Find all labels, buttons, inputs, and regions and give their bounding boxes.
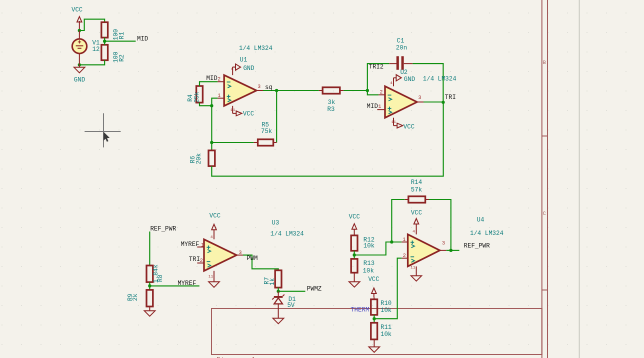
node sq junction [275, 89, 278, 92]
power GND (U1 top) [231, 64, 255, 75]
ground (R11) [369, 339, 380, 352]
hierarchical sheet box [212, 309, 542, 355]
wire R7 bottom [277, 288, 279, 292]
wire VCC to R1 [79, 19, 104, 30]
svg-text:VCC: VCC [209, 212, 220, 219]
resistor R4 [187, 86, 203, 103]
op-amp U2 [377, 86, 423, 118]
wire divider to U4 pin1 [354, 242, 401, 255]
wire R14 feedback left [392, 200, 405, 243]
svg-text:R1: R1 [119, 31, 126, 39]
svg-text:R2: R2 [119, 54, 126, 62]
svg-text:11: 11 [230, 109, 235, 113]
resistor R9 [127, 290, 153, 307]
svg-text:GND: GND [243, 65, 254, 72]
wire U2 output [424, 101, 444, 103]
power VCC (U1 bottom) [230, 106, 254, 118]
svg-text:U3: U3 [272, 220, 280, 227]
ground (U3 bottom) [208, 271, 219, 287]
power VCC (U2 bottom) [391, 118, 415, 131]
svg-text:3: 3 [239, 250, 242, 256]
node VCC junction [78, 29, 81, 32]
wire U4 output [446, 249, 459, 251]
svg-text:VCC: VCC [72, 7, 83, 14]
wire U4 pin2 down to THERM divider [374, 258, 401, 319]
resistor R13 [351, 259, 375, 275]
svg-text:TRI2: TRI2 [369, 63, 384, 70]
wire MID label stub [105, 40, 136, 42]
wire feedback down [276, 91, 278, 143]
capacitor C1 [389, 38, 412, 70]
svg-text:R11: R11 [381, 324, 392, 331]
node PWMZ junction [277, 290, 280, 293]
svg-text:VCC: VCC [243, 111, 254, 118]
resistor R10 [371, 297, 392, 315]
wire U1 pin1 [212, 98, 218, 106]
svg-text:B: B [543, 60, 546, 66]
mouse pointer [104, 132, 110, 142]
svg-text:12: 12 [92, 46, 100, 53]
svg-text:3: 3 [442, 240, 445, 246]
svg-text:PWMZ: PWMZ [307, 285, 322, 292]
svg-text:20k: 20k [196, 153, 203, 164]
svg-text:MID: MID [367, 103, 378, 110]
resistor R2 [101, 45, 125, 63]
svg-text:PWM: PWM [247, 255, 258, 262]
svg-text:10k: 10k [363, 268, 374, 275]
svg-text:GND: GND [404, 76, 415, 83]
wire jog to U2 pin2 [367, 91, 378, 95]
svg-text:1: 1 [201, 242, 204, 248]
wire R2 bottom to GND rail [79, 60, 104, 65]
svg-text:R8: R8 [157, 274, 164, 282]
ground (U4 bottom) [411, 266, 422, 281]
svg-text:THERM: THERM [351, 307, 370, 314]
svg-text:MID: MID [137, 36, 148, 43]
svg-text:VCC: VCC [403, 123, 414, 130]
node pin1 junction [390, 240, 393, 243]
ground (D1) [273, 318, 284, 323]
svg-text:1/4 LM324: 1/4 LM324 [470, 230, 504, 237]
svg-text:R13: R13 [363, 260, 374, 267]
svg-text:1/4 LM324: 1/4 LM324 [423, 75, 457, 82]
svg-text:U1: U1 [240, 57, 248, 64]
svg-text:3: 3 [418, 95, 421, 101]
resistor R12 [351, 235, 375, 250]
resistor R14 [405, 179, 429, 203]
resistor R6 [189, 143, 215, 167]
op-amp U3 [197, 239, 243, 271]
resistor R8 [147, 264, 165, 283]
op-amp U4 [402, 234, 447, 266]
svg-text:11: 11 [411, 266, 416, 270]
svg-text:VCC: VCC [349, 213, 360, 220]
power VCC (R10 top) [368, 276, 379, 297]
svg-text:GND: GND [74, 77, 85, 84]
svg-text:TRI: TRI [189, 256, 200, 263]
svg-text:U4: U4 [477, 216, 485, 223]
node MYREF junction [148, 284, 151, 287]
svg-text:11: 11 [208, 276, 213, 280]
wire R3 to U2 [344, 90, 368, 92]
node R5 junction [210, 141, 213, 144]
ground (V1) [74, 65, 85, 84]
svg-text:1k: 1k [269, 278, 276, 286]
svg-text:25k: 25k [193, 91, 200, 102]
svg-text:MYREF: MYREF [178, 280, 197, 287]
ground (R9) [144, 307, 155, 317]
resistor R1 [101, 22, 125, 40]
node MID junction [103, 40, 106, 43]
wire R10 bottom [373, 315, 375, 323]
resistor R5 [254, 121, 277, 145]
node THERM junction [373, 317, 376, 320]
node U2 in junction [366, 89, 369, 92]
wire REF_PWR to R8 [149, 232, 151, 266]
svg-text:10k: 10k [363, 243, 374, 250]
voltage source V1 [72, 31, 100, 65]
cursor crosshair [85, 113, 121, 147]
svg-text:MID: MID [206, 75, 217, 82]
svg-text:10k: 10k [381, 307, 392, 314]
svg-text:1/4 LM324: 1/4 LM324 [239, 45, 273, 52]
wire R6 to TRI (long) [212, 102, 444, 176]
svg-text:VCC: VCC [411, 210, 422, 217]
power VCC (top-left) [72, 7, 83, 31]
svg-text:10k: 10k [381, 331, 392, 338]
svg-text:11: 11 [391, 121, 396, 125]
wire R5 row [212, 142, 254, 144]
node TRI junction [442, 101, 445, 104]
wire C1 to TRI node [413, 64, 444, 103]
wire U1 output [263, 90, 319, 92]
resistor R7 [263, 270, 281, 287]
svg-text:R3: R3 [327, 106, 335, 113]
svg-text:57k: 57k [411, 187, 422, 194]
resistor R3 [319, 87, 344, 113]
wire MYREF [150, 285, 200, 287]
wire PWMZ [278, 290, 305, 292]
ground (R13) [349, 273, 360, 287]
wire down to R5 row [211, 106, 213, 143]
zener diode D1 [272, 291, 296, 318]
svg-text:1: 1 [378, 104, 381, 110]
wire up to C1 [367, 64, 389, 91]
svg-text:R14: R14 [411, 179, 422, 186]
wire U3 output to R7 [243, 255, 278, 270]
power VCC (U3 top) [209, 212, 220, 239]
resistor R11 [371, 323, 392, 340]
power VCC (U4 top) [411, 210, 422, 235]
wire MID to U1 pin2 [200, 82, 218, 86]
wire R8 to junction [149, 282, 151, 290]
page edge line [578, 0, 580, 358]
svg-text:sq: sq [265, 84, 273, 91]
svg-text:REF_PWR: REF_PWR [150, 226, 176, 233]
power VCC (R12 top) [349, 213, 360, 235]
op-amp U1 [218, 75, 263, 106]
svg-text:1/4 LM324: 1/4 LM324 [270, 231, 304, 238]
svg-text:3: 3 [258, 84, 261, 90]
svg-text:2: 2 [218, 77, 221, 83]
wire R2 top [104, 41, 106, 45]
node R12/R13 junction [353, 253, 356, 256]
svg-text:C: C [543, 211, 546, 217]
node GND junction [78, 63, 81, 66]
node U1 pin1 junction [210, 104, 213, 107]
wire R4 bottom [200, 103, 212, 106]
svg-text:REF_PWR: REF_PWR [464, 243, 490, 250]
wire R12 to junction [353, 251, 355, 259]
svg-text:5V: 5V [287, 302, 295, 309]
svg-text:2: 2 [403, 253, 406, 259]
svg-text:2k: 2k [132, 293, 139, 301]
svg-text:20n: 20n [396, 44, 407, 51]
wire R1 to MID node [104, 38, 106, 42]
svg-text:2: 2 [200, 258, 203, 264]
svg-text:1: 1 [218, 93, 221, 99]
power GND (U2 top) [390, 75, 415, 87]
svg-text:VCC: VCC [368, 276, 379, 283]
svg-text:75k: 75k [261, 128, 272, 135]
svg-text:TRI: TRI [445, 94, 456, 101]
sheet frame border [542, 0, 548, 358]
svg-text:2: 2 [380, 90, 383, 96]
svg-text:1: 1 [403, 237, 406, 243]
node output junction [449, 249, 452, 252]
svg-text:MYREF: MYREF [181, 241, 200, 248]
wire R14 feedback right [429, 200, 451, 251]
